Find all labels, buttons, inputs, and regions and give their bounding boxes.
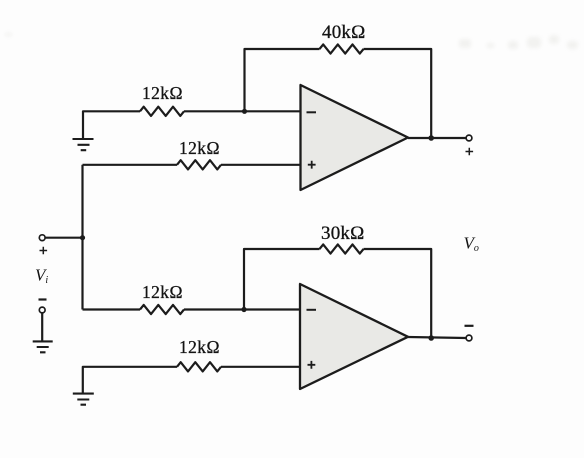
op-amp U1 xyxy=(301,85,409,190)
terminal: Vi plus xyxy=(39,235,45,241)
wire: R4 to output node xyxy=(364,249,432,338)
svg-text:40kΩ: 40kΩ xyxy=(322,22,365,43)
ground G1 xyxy=(73,139,94,150)
wire: R6 to U2 plus input xyxy=(221,366,300,368)
svg-text:Vo: Vo xyxy=(464,234,479,255)
terminal: Vi minus xyxy=(39,307,45,313)
wire: 30k feedback loop xyxy=(244,249,320,310)
wire: ground3 to R6 xyxy=(83,367,177,394)
node: R5/30k junction xyxy=(241,307,246,312)
wire: R1 to U1 minus input xyxy=(184,110,301,112)
ground G3 xyxy=(73,394,94,405)
node: U1 output junction xyxy=(428,135,434,141)
op-amp U2 xyxy=(300,284,408,389)
resistor R3 40k (zigzag) xyxy=(320,44,364,53)
wire: Vi minus terminal to ground2 xyxy=(41,313,43,341)
resistor R1 12k (zigzag) xyxy=(140,107,184,116)
U1 inverting input minus sign xyxy=(307,111,317,113)
wire: U2 output xyxy=(408,337,466,338)
node: R1/40k junction xyxy=(242,109,247,114)
svg-text:Vi: Vi xyxy=(35,266,48,287)
resistor R5 12k (zigzag) xyxy=(140,305,184,314)
scan ghost marks (faint) xyxy=(5,33,578,49)
wire: left input bus vertical xyxy=(81,165,83,310)
svg-text:12kΩ: 12kΩ xyxy=(142,83,183,103)
svg-text:12kΩ: 12kΩ xyxy=(142,282,183,302)
wire: U1 output xyxy=(408,137,466,139)
wire: left bus corner to R2 xyxy=(83,164,178,166)
label: input minus sign xyxy=(39,298,47,300)
U1 non-inverting input plus sign xyxy=(308,161,316,169)
U2 inverting input minus sign xyxy=(307,309,317,311)
wire: bus corner to R5 xyxy=(83,308,141,310)
wire: R3 to output node xyxy=(364,49,432,138)
svg-text:12kΩ: 12kΩ xyxy=(179,337,220,357)
resistor R4 30k (zigzag) xyxy=(320,244,364,253)
label: input plus sign xyxy=(40,247,48,255)
wire: 40k feedback loop xyxy=(245,49,320,111)
svg-text:12kΩ: 12kΩ xyxy=(179,138,220,158)
ground G2 xyxy=(33,341,53,352)
resistor R2 12k (zigzag) xyxy=(177,160,221,169)
label: output minus sign xyxy=(465,325,474,327)
wire: input terminal to bus xyxy=(45,237,83,239)
wire: ground1 to R1 xyxy=(83,111,140,139)
wire: R5 to U2 minus input xyxy=(184,308,300,310)
wire: R2 to U1 plus input xyxy=(221,164,301,166)
node: input junction xyxy=(80,235,85,240)
U2 non-inverting input plus sign xyxy=(308,361,316,369)
terminal: output minus xyxy=(466,335,472,341)
label: output plus sign xyxy=(466,148,474,156)
node: U2 output junction xyxy=(428,335,434,341)
terminal: output plus xyxy=(466,135,472,141)
resistor R6 12k (zigzag) xyxy=(177,362,221,371)
svg-text:30kΩ: 30kΩ xyxy=(321,223,364,244)
